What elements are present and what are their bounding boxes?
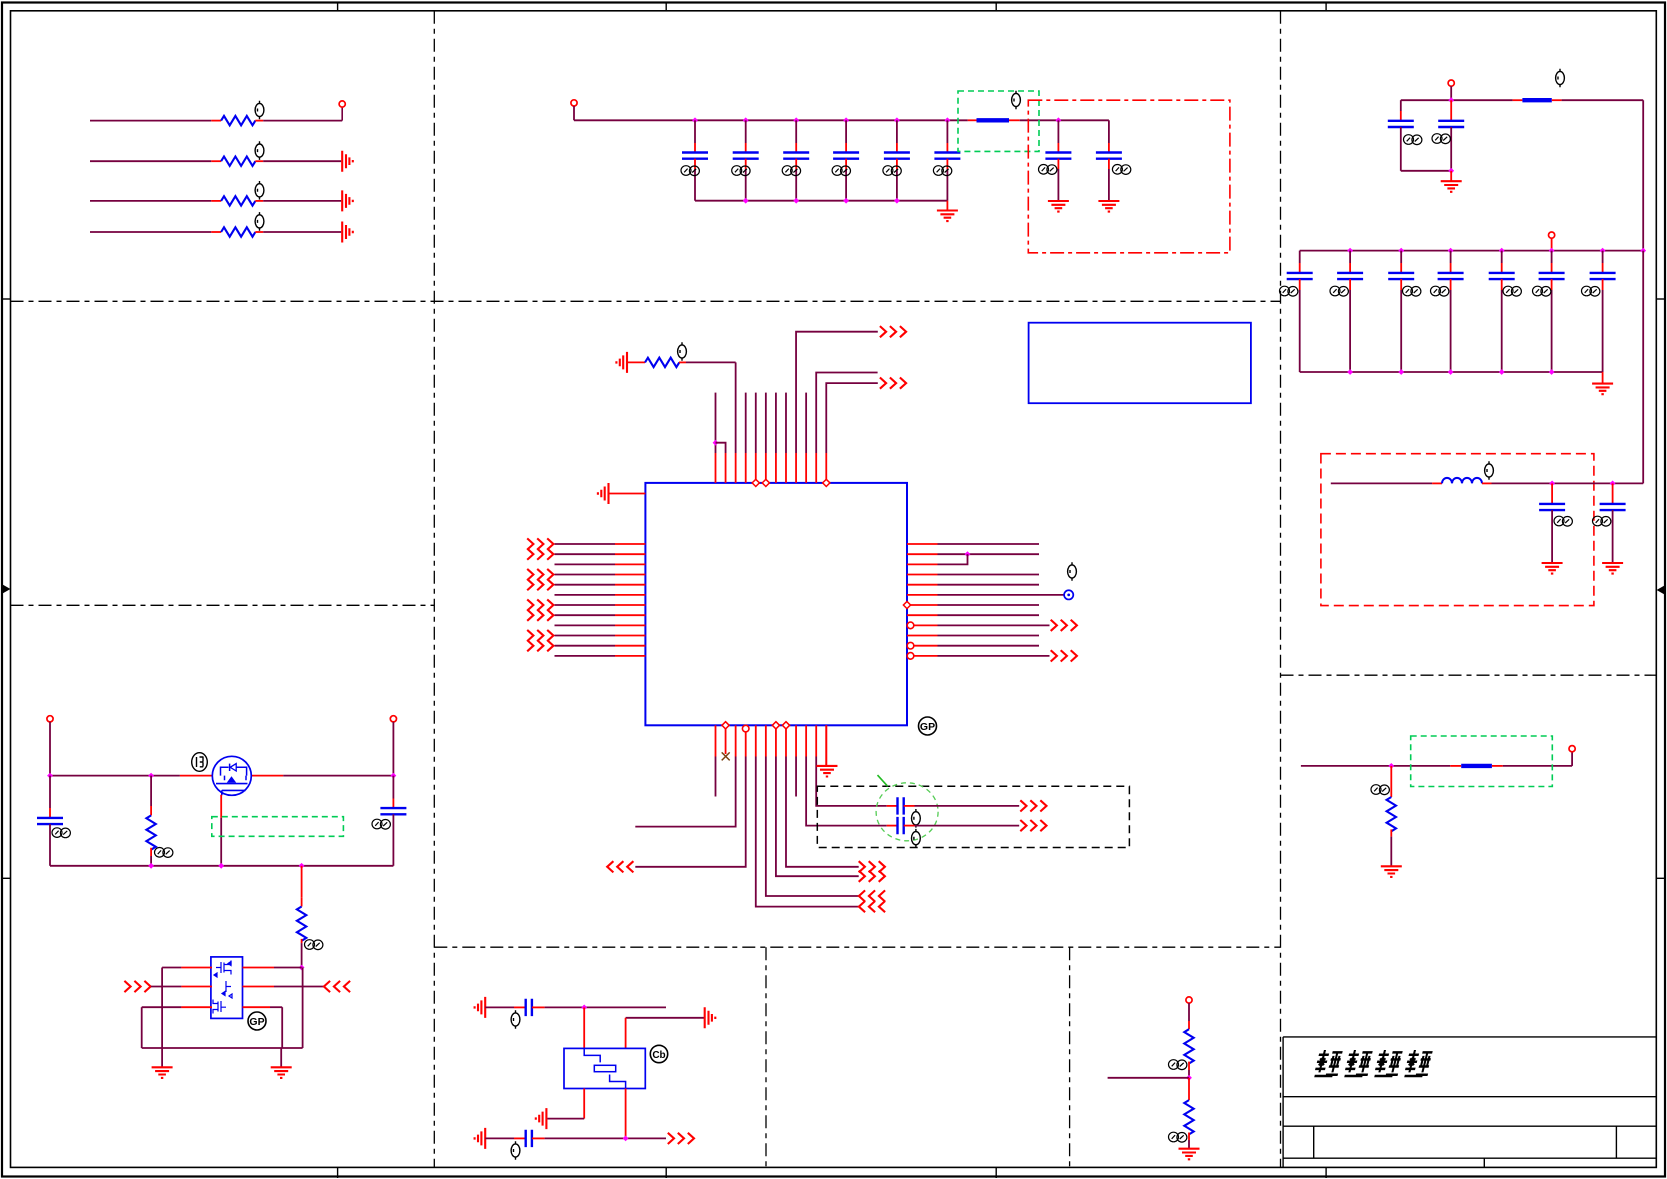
- wire terminal stub R1: [341, 107, 343, 121]
- wire U1 left pin 5: [555, 584, 616, 586]
- wire R9 to gnd: [1188, 1140, 1190, 1149]
- wire U1 bottom pin 5 red: [755, 725, 757, 756]
- junction rail R6: [148, 773, 154, 779]
- wire C19 lower lead: [1400, 290, 1402, 372]
- wire U1 left pin 5 red: [615, 584, 645, 586]
- net connector out right 12: [1051, 650, 1077, 661]
- wire U1 bottom pin 8 red: [785, 725, 787, 756]
- wire U1 bottom pin 2 red: [725, 725, 727, 754]
- wire U1 top pin 2 red: [725, 453, 727, 483]
- junction bank right: [1640, 248, 1646, 254]
- wire C23 upper red: [1602, 263, 1604, 273]
- wire C20 upper lead: [1450, 251, 1452, 263]
- wire C18 upper red: [1349, 263, 1351, 273]
- border zone ticks top and bottom: [338, 2, 1327, 1179]
- label C25: [1593, 516, 1611, 526]
- wire FB1 lead left: [968, 119, 977, 121]
- wire R8 upper red: [1188, 1021, 1190, 1029]
- wire U1 top pin 4 up: [745, 393, 747, 453]
- section divider vertical left: [433, 11, 435, 1168]
- wire right pin 11: [938, 645, 1040, 647]
- highlight box black dashed: [817, 786, 1129, 847]
- no-connect X mark pin 2: [722, 752, 730, 760]
- label R1 value: [255, 101, 264, 120]
- junction top pin 1: [713, 440, 719, 446]
- wire J7 stub: [1551, 238, 1553, 250]
- wire R8 lower red: [1188, 1062, 1190, 1070]
- wire U1 left pin 3 red: [615, 563, 645, 565]
- capacitor C13: [526, 999, 532, 1016]
- ground crystal row2: [705, 1007, 716, 1028]
- capacitor C10: [898, 817, 904, 834]
- wire C22 lower red: [1551, 279, 1553, 290]
- wire C24 lower: [1551, 510, 1553, 562]
- wire R1 to terminal: [263, 120, 342, 122]
- wire R2 lead right: [255, 160, 263, 162]
- wire C21 upper lead: [1501, 251, 1503, 263]
- wire J3 stub: [49, 722, 51, 776]
- wire divider tap: [1108, 1077, 1189, 1079]
- capacitor C18: [1337, 273, 1363, 279]
- terminal J1 no-connect flag: [339, 101, 345, 107]
- wire C9 lead right red: [904, 805, 915, 807]
- wire U1 bottom pin 3 red: [735, 725, 737, 756]
- label R4 value: [255, 212, 264, 231]
- capacitor C7: [1045, 153, 1071, 159]
- junction bank top C20: [1448, 248, 1454, 254]
- transistor Q1 PMOS: [212, 756, 251, 795]
- capacitor C1: [682, 153, 708, 159]
- wire U1 bottom pin 11 red: [815, 725, 817, 756]
- wire xtal pin1 gnd link: [547, 1118, 584, 1120]
- junction bottom rail gate: [218, 863, 224, 869]
- wire right pin 2: [938, 553, 1040, 555]
- wire Q1 drain red: [251, 775, 284, 777]
- wire U1 left pin 6 red: [615, 594, 645, 596]
- wire U1 top pin 1 up: [715, 393, 717, 453]
- wire C19 lower red: [1400, 279, 1402, 290]
- wire C4 lower lead: [845, 169, 847, 201]
- wire U2 node drop: [302, 968, 304, 1049]
- pin invert mark right 12: [907, 653, 914, 660]
- wire C3 lower lead: [795, 169, 797, 201]
- ground at U1 bottom: [816, 766, 837, 777]
- highlight green leader line: [878, 775, 888, 786]
- wire U2 row2 right: [274, 986, 324, 988]
- transistor U2 dual FET body: [211, 957, 243, 1019]
- wire U1 top pin 8 red: [785, 453, 787, 483]
- wire C7 upper lead: [1057, 120, 1059, 143]
- wire right pin 6 to testpoint: [938, 594, 1064, 596]
- net connector in left pin 2: [527, 549, 553, 560]
- wire net R4 left segment: [90, 231, 211, 233]
- wire FB2 lead left: [1513, 99, 1523, 101]
- wire U1 bottom pin 10 red: [805, 725, 807, 756]
- wire U1 right pin 12 red: [907, 655, 938, 657]
- wire xtal top from gnd: [485, 1006, 514, 1008]
- capacitor C16: [1438, 121, 1464, 127]
- wire Q1 gate red: [220, 795, 222, 818]
- wire U1 bottom pin 7 red: [775, 725, 777, 756]
- border center arrow left: [2, 586, 9, 593]
- wire C12 upper red: [392, 799, 394, 809]
- wire U1 right pin 9 red: [907, 624, 938, 626]
- wire R3 lead left: [211, 200, 221, 202]
- wire U1 top pin 3 red: [735, 453, 737, 483]
- junction on rail at C3: [793, 117, 799, 123]
- wire C13 lead left red: [514, 1006, 526, 1008]
- wire R6 lower: [150, 856, 152, 866]
- wire R7 upper red: [301, 866, 303, 898]
- junction rail J4: [391, 773, 397, 779]
- wire C9 lead left red: [887, 805, 898, 807]
- wire U2 row3 red in: [181, 1006, 212, 1008]
- wire C21 lower red: [1501, 279, 1503, 290]
- wire bottom pin 6 to net: [766, 757, 859, 897]
- ferrite bead FB1: [977, 118, 1010, 122]
- label R8: [1169, 1060, 1187, 1070]
- wire right pin 4: [938, 574, 1040, 576]
- junction J6 rail: [1448, 97, 1454, 103]
- wire R10 lower: [1390, 837, 1392, 867]
- wire C17 upper red: [1299, 263, 1301, 273]
- label R9: [1169, 1132, 1187, 1142]
- wire C6 upper lead red: [946, 143, 948, 153]
- wire U1 left pin 7 red: [615, 604, 645, 606]
- pin clock mark bottom 7: [772, 722, 779, 729]
- ground (sideways) for R4: [342, 222, 353, 243]
- resistor R3: [221, 196, 255, 205]
- wire bank gnd stub: [1602, 372, 1604, 383]
- wire U2 row2 left: [151, 986, 182, 988]
- wire C6 upper lead: [946, 120, 948, 143]
- terminal J5: [1186, 997, 1192, 1003]
- pin clock mark top 5: [752, 479, 759, 486]
- wire FB3 lead right: [1492, 765, 1503, 767]
- junction bank top C22: [1549, 248, 1555, 254]
- inductor L1: [1442, 478, 1482, 484]
- wire U1 left pin 12 red: [615, 655, 645, 657]
- wire right pin 5: [938, 584, 1040, 586]
- wire C2 lower lead red: [745, 159, 747, 169]
- capacitor C24: [1539, 504, 1565, 510]
- wire rail to Q1 source: [50, 775, 180, 777]
- wire U1 left pin 6: [555, 594, 616, 596]
- resistor R1: [221, 116, 255, 125]
- section divider vertical mid-bottom 1: [765, 947, 767, 1167]
- wire U1 top pin 10 up: [805, 393, 807, 453]
- capacitor C2: [733, 153, 759, 159]
- ground C24: [1542, 563, 1563, 574]
- wire C19 upper red: [1400, 263, 1402, 273]
- wire C5 upper lead red: [896, 143, 898, 153]
- wire U1 top pin 7 red: [775, 453, 777, 483]
- pin clock mark top 12: [823, 479, 830, 486]
- wire U1 left pin 2: [555, 553, 616, 555]
- ground (sideways) for R3: [342, 190, 353, 211]
- wire C7 upper lead red: [1057, 143, 1059, 153]
- wire C8 lower lead: [1108, 169, 1110, 201]
- wire FB3 rail right: [1503, 765, 1572, 767]
- ground crystal mid: [536, 1108, 547, 1129]
- junction C24: [1549, 481, 1555, 487]
- wire U2 row3 drop right: [281, 1007, 283, 1048]
- junction bank bottom: [1347, 369, 1353, 375]
- highlight box green mosfet: [212, 817, 344, 837]
- label C15: [1404, 135, 1422, 145]
- net connector in left pin 1: [527, 538, 553, 549]
- wire U1 left pin 1: [555, 543, 616, 545]
- wire U2 row2 red out: [243, 986, 275, 988]
- label C20: [1431, 286, 1449, 296]
- capacitor C19: [1388, 273, 1414, 279]
- junction bank bottom: [1499, 369, 1505, 375]
- wire net R2 left segment: [90, 160, 211, 162]
- svg-text:Cb: Cb: [652, 1050, 665, 1061]
- wire R3 to ground: [263, 200, 341, 202]
- wire R6 upper red: [150, 806, 152, 815]
- wire right pin 1: [938, 543, 1040, 545]
- pin invert mark right 9: [907, 622, 914, 629]
- wire U1 top pin 7 up: [775, 393, 777, 453]
- title block frame: [1283, 1037, 1656, 1168]
- junction on bottom rail: [793, 198, 799, 204]
- wire L1 rail left: [1331, 482, 1432, 484]
- label U1 GP marker: [919, 717, 937, 735]
- junction on bottom rail: [894, 198, 900, 204]
- wire C23 lower lead: [1602, 290, 1604, 372]
- net connector in bottom 4: [607, 861, 633, 872]
- wire R4 to ground: [263, 231, 341, 233]
- ground C25: [1602, 563, 1623, 574]
- wire R10 upper2: [1390, 788, 1392, 797]
- label R3 value: [255, 181, 264, 200]
- junction on rail at C7: [1056, 117, 1062, 123]
- ground divider: [1179, 1149, 1200, 1160]
- wire C20 lower lead: [1450, 290, 1452, 372]
- wire C4 upper lead: [845, 120, 847, 143]
- wire bank top rail: [1300, 250, 1644, 252]
- wire U1 left pin 11: [555, 645, 616, 647]
- wire gnd stub right top: [1450, 171, 1452, 181]
- ground R10: [1381, 866, 1402, 877]
- wire R8 to node: [1188, 1070, 1190, 1078]
- wire bottom rail mosfet: [50, 865, 393, 867]
- terminal J8: [1569, 746, 1575, 752]
- wire U2 row3 drop left: [141, 1007, 143, 1048]
- capacitor C21: [1489, 273, 1515, 279]
- wire U2 row1 right: [274, 967, 302, 969]
- wire right edge drop 2: [1642, 251, 1644, 484]
- wire bottom pin 11 to cap C9: [816, 757, 887, 806]
- wire U1 left pin 4 red: [615, 574, 645, 576]
- wire L1 lead left: [1432, 482, 1442, 484]
- label L1: [1485, 461, 1494, 480]
- net connector in left pin 10: [527, 630, 553, 641]
- wire J5 stub: [1188, 1003, 1190, 1021]
- wire R4 lead right: [255, 231, 263, 233]
- wire C15 lower: [1400, 127, 1402, 171]
- capacitor C9: [898, 797, 904, 814]
- net connector bottom 8: [859, 861, 885, 872]
- junction on rail at C6: [945, 117, 951, 123]
- ground near R5: [616, 352, 627, 373]
- net connector in U2 row2: [124, 981, 150, 992]
- pin invert mark bottom 4: [742, 725, 749, 732]
- ground of cap bank: [937, 211, 958, 222]
- wire C24 upper red: [1551, 483, 1553, 504]
- wire U1 right pin 10 red: [907, 635, 938, 637]
- wire right edge drop: [1642, 100, 1644, 250]
- ground crystal bottom-left: [475, 1128, 486, 1149]
- junction divider: [1186, 1075, 1192, 1081]
- wire C22 lower lead: [1551, 290, 1553, 372]
- highlight box red dashed L1: [1321, 454, 1594, 606]
- border zone ticks sides: [2, 299, 1666, 878]
- crystal Y1 body: [564, 1048, 645, 1088]
- wire C6 lower lead red: [946, 159, 948, 169]
- wire C20 upper red: [1450, 263, 1452, 273]
- wire R2 to ground: [263, 160, 341, 162]
- label FB2: [1556, 69, 1565, 88]
- net connector out right 9: [1051, 620, 1077, 631]
- wire C17 lower red: [1299, 279, 1301, 290]
- label C13: [511, 1010, 520, 1029]
- wire ground stub cap bank: [946, 201, 948, 211]
- capacitor C6: [934, 153, 960, 159]
- junction on rail at C2: [743, 117, 749, 123]
- wire gnd2 stub: [280, 1048, 282, 1067]
- highlight box green FB3: [1411, 736, 1553, 787]
- capacitor C22: [1539, 273, 1565, 279]
- wire U1 left pin 10: [555, 635, 616, 637]
- wire bottom pin 10 to cap C10: [806, 757, 887, 826]
- wire FB1 lead right: [1009, 119, 1020, 121]
- wire C1 lower lead: [694, 169, 696, 201]
- ground right top: [1441, 181, 1462, 192]
- pin clock mark bottom 8: [782, 722, 789, 729]
- net connector bottom 7: [859, 871, 885, 882]
- net connector bottom 5: [859, 901, 885, 912]
- wire FB3 rail left: [1301, 765, 1450, 767]
- wire J2 stub: [573, 106, 575, 120]
- wire R6 upper lead: [150, 776, 152, 806]
- label C9: [912, 809, 921, 828]
- testpoint marker blue: [1064, 590, 1073, 599]
- wire C5 upper lead: [896, 120, 898, 143]
- label C1: [681, 166, 699, 176]
- wire U1 top pin 10 red: [805, 453, 807, 483]
- wire L1 rail right: [1492, 482, 1644, 484]
- resistor R9: [1184, 1100, 1193, 1134]
- capacitor C5: [884, 153, 910, 159]
- label C10: [912, 829, 921, 848]
- wire R10 upper: [1390, 766, 1392, 788]
- terminal J7: [1549, 232, 1555, 238]
- net connector out C9: [1020, 800, 1046, 811]
- wire rail to right edge: [1562, 99, 1644, 101]
- wire U1 left pin 10 red: [615, 635, 645, 637]
- wire C7 lower lead: [1057, 169, 1059, 201]
- wire R7 upper red2: [301, 898, 303, 907]
- resistor R4: [221, 227, 255, 236]
- wire xtal pin1 bottom: [583, 1089, 585, 1119]
- wire R7 to U2 node: [301, 943, 303, 967]
- op-amp U1 main IC body: [645, 483, 907, 725]
- capacitor C12: [380, 808, 406, 814]
- label C19: [1403, 286, 1421, 296]
- wire U1 bottom pin 9 red: [795, 725, 797, 756]
- label FB1: [1012, 91, 1021, 110]
- wire C9 to net: [915, 805, 1020, 807]
- svg-text:GP: GP: [920, 721, 935, 733]
- wire right pin 12 to net: [938, 655, 1050, 657]
- wire branch pin1 to pin2: [716, 443, 726, 453]
- wire C16 red upper: [1450, 100, 1452, 121]
- wire R1 lead right: [255, 120, 263, 122]
- wire C11 upper lead: [49, 776, 51, 808]
- junction bank top C23: [1600, 248, 1606, 254]
- wire U2 row3 right: [270, 1006, 282, 1008]
- wire C4 upper lead red: [845, 143, 847, 153]
- junction bank bottom: [1448, 369, 1454, 375]
- wire top rail VCC: [574, 119, 968, 121]
- wire C2 lower lead: [745, 169, 747, 201]
- ferrite bead FB2: [1522, 98, 1551, 102]
- wire bottom pin 4 to net: [635, 757, 745, 867]
- junction on bottom rail: [743, 198, 749, 204]
- wire C8 upper lead: [1108, 120, 1110, 143]
- wire U1 left pin 3: [555, 563, 616, 565]
- capacitor C4: [833, 153, 859, 159]
- wire right rail A: [1401, 99, 1513, 101]
- wire U1 top pin 12 red: [825, 453, 827, 483]
- wire U1 top pin 1 red: [715, 453, 717, 483]
- ground at U1 left pin GND: [598, 483, 609, 504]
- wire FB3 lead left: [1450, 765, 1461, 767]
- net connector in left pin 4: [527, 569, 553, 580]
- wire U1 left pin 8 red: [615, 614, 645, 616]
- label C12: [372, 819, 390, 829]
- label C2: [732, 166, 750, 176]
- capacitor C14: [526, 1130, 532, 1147]
- wire C15-C16 bottom link: [1401, 170, 1451, 172]
- wire U1 left pin 2 red: [615, 553, 645, 555]
- net connector in left pin 7: [527, 599, 553, 610]
- wire U1 top pin 9 red: [795, 453, 797, 483]
- wire right pin 7: [938, 604, 1040, 606]
- junction on rail at C5: [894, 117, 900, 123]
- wire top pin 9 to net arrow: [796, 332, 878, 453]
- wire rail from Q1 drain: [283, 775, 393, 777]
- label Y1 Cb marker: [650, 1045, 667, 1062]
- label C17: [1280, 286, 1298, 296]
- wire C23 upper lead: [1602, 251, 1604, 263]
- junction xtal top: [581, 1005, 587, 1011]
- wire C23 lower red: [1602, 279, 1604, 290]
- wire C15 red: [1400, 111, 1402, 121]
- wire to J8: [1571, 752, 1573, 766]
- wire R9 upper red: [1188, 1078, 1190, 1100]
- wire U2 row3 red out: [243, 1006, 271, 1008]
- section divider vertical right: [1280, 11, 1282, 1168]
- highlight green circle: [876, 783, 938, 841]
- label C21: [1503, 286, 1521, 296]
- capacitor C17: [1287, 273, 1313, 279]
- junction on rail at C1: [692, 117, 698, 123]
- label R7: [305, 940, 323, 950]
- junction bottom rail branch: [299, 863, 305, 869]
